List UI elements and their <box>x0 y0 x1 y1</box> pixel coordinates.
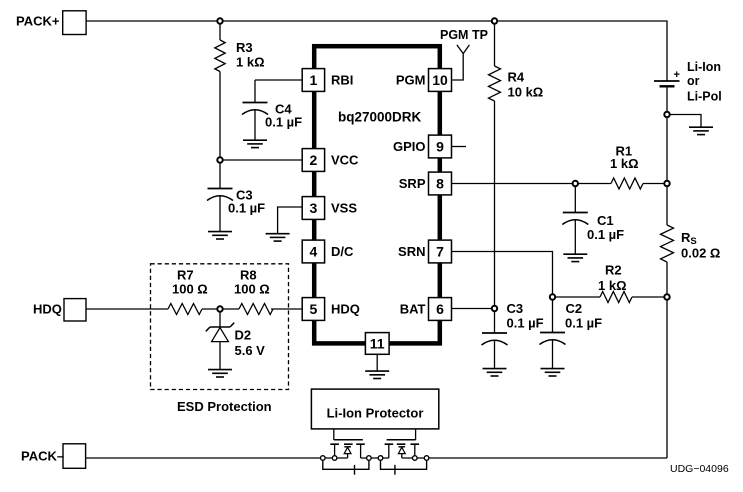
svg-text:5.6 V: 5.6 V <box>235 343 266 358</box>
ground D2 <box>208 370 232 377</box>
svg-text:D2: D2 <box>235 328 252 343</box>
resistor R2 <box>600 292 632 303</box>
svg-text:Li-Ion Protector: Li-Ion Protector <box>327 406 424 421</box>
pin name labels <box>331 72 426 316</box>
svg-text:11: 11 <box>370 336 385 352</box>
svg-text:R2: R2 <box>605 263 622 278</box>
Q1 body diode <box>344 446 351 448</box>
wire C2 top lead <box>552 300 554 333</box>
wire C1 bottom lead <box>574 220 576 254</box>
wire C1 top lead <box>574 186 576 212</box>
pin 3 VSS <box>302 197 324 220</box>
ground pin 11 <box>365 371 389 378</box>
svg-text:+: + <box>674 69 680 81</box>
node R3 top junction <box>217 18 222 23</box>
wire Q2 source lead <box>414 444 416 455</box>
capacitor C3 (left) <box>207 189 233 201</box>
svg-text:C1: C1 <box>597 213 614 228</box>
node SRN C2 R2 junction <box>550 294 555 299</box>
svg-text:Li-Ion: Li-Ion <box>687 60 721 74</box>
transistor Q2 protector MOSFET (mirrored) <box>378 429 429 475</box>
svg-text:BAT: BAT <box>400 301 426 316</box>
Q2 channel contact bars <box>385 443 420 445</box>
node R4 top junction <box>492 18 497 23</box>
wire C3 right top lead <box>494 311 496 333</box>
wire D2 top lead <box>219 312 221 327</box>
Q2 gate bar <box>387 439 416 441</box>
wire SRN pin 7 to C2 junction <box>452 252 553 295</box>
capacitor C4 <box>242 103 268 115</box>
terminal PACK- <box>63 444 86 469</box>
wire R4 top lead <box>494 24 496 66</box>
transistor Q1 protector MOSFET <box>321 429 372 475</box>
terminal HDQ <box>64 299 86 321</box>
svg-text:VCC: VCC <box>331 152 359 167</box>
IC U1 bq27000DRK body <box>314 46 440 343</box>
svg-text:GPIO: GPIO <box>393 139 426 154</box>
wire C3 right bottom lead <box>494 341 496 369</box>
svg-text:R3: R3 <box>236 40 253 55</box>
svg-text:or: or <box>687 74 700 88</box>
capacitor C3 (right) <box>482 333 508 345</box>
svg-text:7: 7 <box>436 244 444 260</box>
node VCC junction <box>217 157 222 162</box>
wire Q2 gate lead <box>415 429 417 440</box>
node R2 battery junction <box>664 294 669 299</box>
wire top rail PACK+ to battery <box>86 21 667 81</box>
test point PGM TP <box>457 45 470 54</box>
svg-text:C3: C3 <box>507 301 524 316</box>
svg-text:PGM TP: PGM TP <box>440 28 488 42</box>
svg-text:SRP: SRP <box>399 176 426 191</box>
svg-text:R4: R4 <box>508 70 525 85</box>
wire Q1 source lead <box>334 444 336 455</box>
ground C1 <box>563 254 587 261</box>
wire BAT pin 6 to C3 junction <box>452 308 492 310</box>
pin 1 RBI <box>302 69 324 92</box>
svg-text:PACK+: PACK+ <box>16 14 60 29</box>
capacitor C1 <box>562 213 588 225</box>
svg-text:1 kΩ: 1 kΩ <box>236 55 265 70</box>
wire Q1 gate lead <box>333 429 335 440</box>
svg-text:SRN: SRN <box>398 244 425 259</box>
svg-text:0.1 µF: 0.1 µF <box>265 115 302 130</box>
Q2 bracket tick <box>394 465 396 475</box>
ground C3 left <box>208 232 232 239</box>
resistor R8 <box>239 304 273 315</box>
node Q2 terminals <box>424 456 429 461</box>
svg-text:Li-Pol: Li-Pol <box>687 90 722 104</box>
svg-text:R8: R8 <box>240 268 257 283</box>
svg-text:D/C: D/C <box>331 244 354 259</box>
resistor R3 <box>215 40 225 72</box>
wire bottom rail segment 2 <box>361 457 389 459</box>
svg-text:UDG−04096: UDG−04096 <box>670 463 729 475</box>
ground C2 <box>541 369 565 376</box>
wire C4 to pin 1 <box>255 79 302 81</box>
node SRP C1 junction <box>573 181 578 186</box>
wire SRP pin 8 to R1 <box>452 183 612 185</box>
wire R4 bottom to BAT junction <box>494 101 496 306</box>
ground C4 <box>243 140 267 147</box>
svg-text:3: 3 <box>310 200 318 216</box>
pin 9 GPIO <box>429 135 452 158</box>
pin 6 BAT <box>429 298 452 321</box>
wire C4 bottom lead <box>254 110 256 140</box>
wire R8 to pin 5 <box>271 308 302 310</box>
svg-text:VSS: VSS <box>331 200 357 215</box>
svg-text:R7: R7 <box>177 268 194 283</box>
node Q1 terminals <box>321 456 326 461</box>
wire PGM test point lead <box>452 54 464 80</box>
wire HDQ to R7 <box>86 308 168 310</box>
svg-text:6: 6 <box>436 301 444 317</box>
resistor R7 <box>168 304 202 315</box>
wire D2 bottom lead <box>219 342 221 370</box>
svg-text:PGM: PGM <box>396 72 426 87</box>
ground C3 right <box>483 369 507 376</box>
svg-text:8: 8 <box>436 176 444 192</box>
wire R3 bottom to VCC junction <box>219 72 221 158</box>
wire R7 to R8 <box>202 308 239 310</box>
pin 4 D/C <box>302 240 324 263</box>
node battery ground junction <box>664 112 669 117</box>
svg-text:4: 4 <box>310 244 318 260</box>
resistor RS sense <box>661 225 674 262</box>
resistor R4 <box>489 66 501 101</box>
wire pin 11 ground lead <box>376 354 378 371</box>
svg-text:0.1 µF: 0.1 µF <box>507 316 544 331</box>
svg-text:ESD Protection: ESD Protection <box>177 399 272 414</box>
wire battery negative lead <box>666 88 668 226</box>
Q2 substrate bracket <box>381 461 427 470</box>
svg-text:HDQ: HDQ <box>33 302 62 317</box>
svg-text:0.1 µF: 0.1 µF <box>565 316 602 331</box>
ground battery <box>689 127 713 134</box>
svg-text:1: 1 <box>310 72 318 88</box>
svg-text:10: 10 <box>432 72 448 88</box>
battery cell Li-Ion plates <box>654 80 680 82</box>
pin 11 <box>365 333 389 355</box>
svg-text:2: 2 <box>310 152 318 168</box>
svg-text:0.02 Ω: 0.02 Ω <box>681 246 720 261</box>
pin 5 HDQ <box>302 298 324 321</box>
svg-text:1 kΩ: 1 kΩ <box>598 278 627 293</box>
ground VSS <box>266 234 290 241</box>
Q1 substrate bracket <box>323 461 369 470</box>
wire C3 bottom lead <box>219 196 221 232</box>
wire R2 to battery node <box>632 296 664 298</box>
Q2 body diode <box>398 446 405 448</box>
wire RS bottom to corner <box>666 262 668 458</box>
wire GPIO stub <box>452 146 467 148</box>
pin 10 PGM <box>429 69 452 92</box>
svg-text:0.1 µF: 0.1 µF <box>587 227 624 242</box>
wire VSS pin 3 to ground <box>278 207 303 234</box>
svg-text:PACK–: PACK– <box>21 449 64 464</box>
pin 8 SRP <box>429 172 452 195</box>
capacitor C2 <box>540 333 566 345</box>
svg-text:5: 5 <box>310 301 318 317</box>
wire battery ground branch <box>670 115 701 128</box>
resistor R1 <box>611 178 643 189</box>
pin 7 SRN <box>429 240 452 263</box>
wire C3 top lead <box>219 163 221 189</box>
svg-text:10 kΩ: 10 kΩ <box>508 85 544 100</box>
wire Q2 drain lead <box>388 444 390 458</box>
ESD Protection dashed box <box>151 264 289 390</box>
wire R1 to battery node <box>643 183 664 185</box>
wire bottom rail segment 3 <box>402 457 667 459</box>
pin number labels <box>310 72 448 352</box>
node HDQ D2 junction <box>217 306 222 311</box>
svg-text:RBI: RBI <box>331 72 353 87</box>
wire C2 bottom lead <box>552 340 554 369</box>
wire C2 junction to R2 <box>555 296 600 298</box>
wire C4 top lead <box>254 80 256 103</box>
svg-text:9: 9 <box>436 139 444 155</box>
svg-text:HDQ: HDQ <box>331 301 360 316</box>
wire Q1 drain lead <box>360 444 362 458</box>
wire VCC junction to pin 2 <box>223 159 303 161</box>
node R1 battery junction <box>664 181 669 186</box>
svg-text:100 Ω: 100 Ω <box>234 282 270 297</box>
svg-text:0.1 µF: 0.1 µF <box>228 201 265 216</box>
wire bottom rail segment 1 <box>86 457 348 459</box>
Q1 bracket tick <box>354 465 356 475</box>
wire R3 top lead <box>219 24 221 40</box>
svg-text:100 Ω: 100 Ω <box>172 282 208 297</box>
svg-text:C2: C2 <box>566 301 583 316</box>
node BAT C3 junction <box>492 306 497 311</box>
Q1 gate bar <box>334 439 363 441</box>
Q1 channel contact bars <box>330 443 365 445</box>
svg-text:1 kΩ: 1 kΩ <box>610 156 639 171</box>
zener diode D2 <box>206 323 234 332</box>
Li-Ion Protector box <box>311 389 438 429</box>
svg-text:bq27000DRK: bq27000DRK <box>338 110 422 125</box>
pin 2 VCC <box>302 149 324 172</box>
terminal PACK+ <box>63 11 86 35</box>
